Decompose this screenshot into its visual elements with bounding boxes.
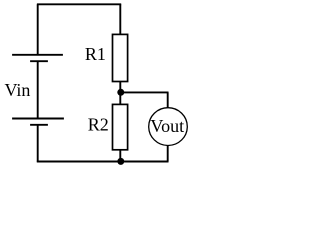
node A junction dot bbox=[117, 89, 124, 96]
wire: battery negative down to bottom rail bbox=[37, 125, 39, 163]
resistor R2 body bbox=[113, 104, 128, 149]
wire: R2 bottom to bottom-rail node B bbox=[119, 150, 121, 162]
wire: voltmeter bottom to bottom rail bbox=[167, 145, 169, 161]
battery V1 cell 2 short plate (-) bbox=[30, 124, 48, 126]
svg-text:Vout: Vout bbox=[150, 116, 184, 136]
wire: top rail bbox=[37, 3, 121, 5]
resistor R1 body bbox=[113, 34, 128, 81]
battery V1 cell 1 long plate (+) bbox=[12, 54, 63, 56]
wire: node A down to R2 top bbox=[119, 92, 121, 104]
wire: left vertical from battery positive plate up to top rail bbox=[37, 4, 39, 54]
wire: down from node-A branch to voltmeter top bbox=[167, 92, 169, 108]
voltmeter U1 circle bbox=[149, 108, 188, 146]
wire: bottom rail bbox=[37, 161, 169, 163]
wire: between battery cell 1 and cell 2 bbox=[37, 61, 39, 118]
svg-text:R2: R2 bbox=[88, 114, 109, 134]
wire: right vertical from top rail down to R1 bbox=[119, 4, 121, 34]
svg-text:Vin: Vin bbox=[5, 80, 31, 100]
battery V1 cell 2 long plate (+) bbox=[12, 118, 64, 120]
battery V1 cell 1 short plate (-) bbox=[30, 60, 48, 62]
wire: node A right to voltmeter column bbox=[121, 91, 169, 93]
svg-text:R1: R1 bbox=[85, 44, 106, 64]
node B junction dot bbox=[117, 158, 124, 165]
wire: R1 bottom to node A bbox=[119, 82, 121, 93]
